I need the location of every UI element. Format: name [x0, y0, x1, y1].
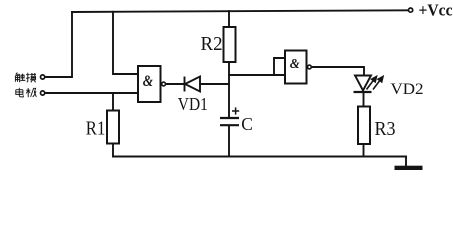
LED VD2 arrows [367, 77, 384, 90]
wire top Vcc rail [72, 10, 409, 12]
wire VD1 to RC junction [200, 83, 229, 85]
svg-text:VD1: VD1 [178, 94, 208, 114]
wire gate U2 output to VD2 [312, 67, 364, 75]
wire rail to R2 [228, 11, 230, 27]
wire junction to gate U2 input [229, 74, 285, 76]
label chu-mo (touch) [15, 73, 25, 82]
svg-text:+Vcc: +Vcc [419, 1, 453, 20]
wire U2 tied-input loop [274, 58, 285, 75]
capacitor C plates [220, 118, 239, 125]
svg-text:R1: R1 [86, 117, 106, 139]
gate U2 output bubble [308, 65, 312, 69]
wire capacitor to ground rail [228, 126, 230, 157]
wire ground stub [405, 157, 407, 167]
terminal touch electrode bottom [41, 91, 45, 95]
wire R3 bottom to ground rail [363, 144, 365, 157]
wire R1 top drop [112, 93, 114, 111]
label mo (of chu-mo) + dian-ji (electrode) [16, 73, 37, 98]
wire electrode to gate U1 lower input [46, 92, 139, 94]
capacitor plus sign [232, 107, 239, 114]
diode VD1 [185, 77, 201, 92]
svg-text:R2: R2 [201, 33, 223, 55]
wire rail to gate U1 upper input [113, 12, 138, 74]
wire bottom ground rail [113, 156, 406, 158]
wire R2 bottom through junction to capacitor [228, 62, 230, 118]
terminal touch electrode top [41, 75, 45, 79]
resistor R2 [224, 27, 236, 62]
gate U2 NAND box [285, 51, 307, 84]
terminal +Vcc circle [409, 8, 413, 12]
LED VD2 [354, 76, 372, 93]
resistor R1 [107, 111, 119, 144]
ground [395, 166, 423, 170]
svg-text:R3: R3 [375, 118, 396, 140]
svg-text:VD2: VD2 [391, 81, 424, 98]
wire gate U1 output to VD1 [166, 83, 185, 85]
svg-text:C: C [241, 114, 253, 134]
wire left vertical from rail to touch terminal [46, 12, 73, 77]
svg-text:&: & [290, 57, 300, 72]
wire VD2 cathode to R3 [363, 92, 365, 107]
gate U1 NAND box [138, 66, 161, 102]
gate U1 output bubble [162, 82, 166, 86]
resistor R3 [358, 107, 370, 145]
wire R1 bottom to ground rail [112, 144, 114, 157]
svg-text:&: & [143, 73, 153, 90]
